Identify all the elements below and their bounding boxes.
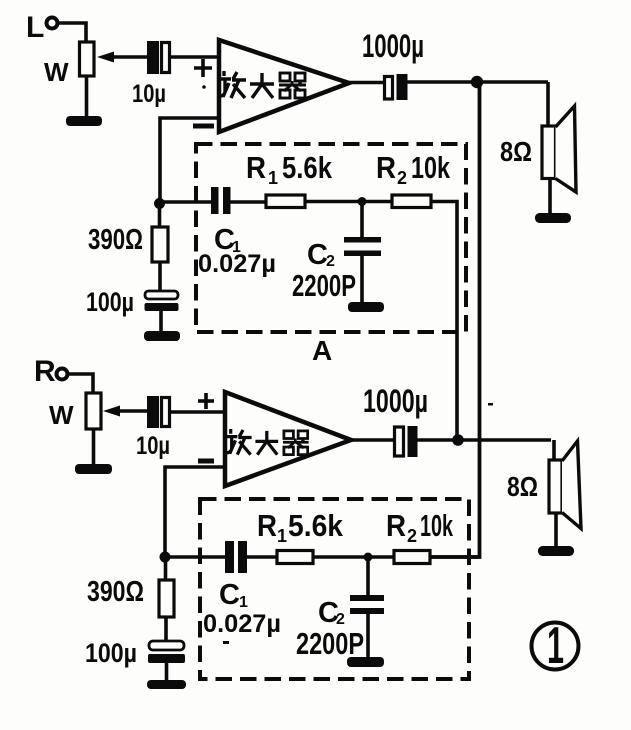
figure number 1 in circle xyxy=(532,617,579,675)
op-amp U1 amplifier triangle (left channel) xyxy=(219,40,349,132)
capacitor C2 left channel xyxy=(344,237,381,243)
node R1 R2 C2 junction right channel xyxy=(364,553,373,562)
wire down to speaker LS1 xyxy=(546,82,550,127)
wire C1 to R1 right xyxy=(245,555,278,559)
wire C2 to ground right xyxy=(366,613,370,658)
node L input terminal xyxy=(26,11,58,44)
resistor R2 right channel xyxy=(394,551,430,564)
svg-text:100µ: 100µ xyxy=(86,287,134,317)
svg-text:W: W xyxy=(49,400,74,430)
wire R2 to lower output node (cross feedback) xyxy=(431,202,457,441)
value label C1 right xyxy=(219,579,248,611)
svg-text:C: C xyxy=(219,579,240,611)
wire 1000u to speaker right channel xyxy=(417,438,551,442)
svg-text:2: 2 xyxy=(397,168,407,188)
potentiometer W (left channel) xyxy=(44,42,148,87)
svg-text:10µ: 10µ xyxy=(136,432,170,460)
node feedback junction left channel xyxy=(154,198,165,209)
wire 10u cap to amplifier + input xyxy=(171,55,219,59)
ground below speaker LS2 xyxy=(538,546,574,556)
noise speck xyxy=(223,641,229,644)
noise speck xyxy=(488,403,493,406)
capacitor 10u right channel xyxy=(136,396,170,460)
wire R terminal to potentiometer top xyxy=(68,374,93,393)
wire speaker LS2 to ground xyxy=(554,513,558,547)
wire node to capacitor C2 right xyxy=(366,557,370,597)
capacitor 1000u left channel xyxy=(362,28,424,100)
ground below speaker LS1 xyxy=(535,213,571,223)
value label fang-da-qi U1 xyxy=(218,71,306,98)
wire 390 ohm to 100u cap xyxy=(158,262,162,292)
speaker LS1 8 ohm xyxy=(542,106,576,192)
op-amp U2 amplifier triangle (right channel) xyxy=(225,392,351,486)
svg-text:W: W xyxy=(44,57,69,87)
capacitor 100u left channel xyxy=(145,291,179,311)
svg-text:1: 1 xyxy=(547,617,564,675)
node output junction left channel xyxy=(471,76,483,88)
pin + of op-amp U2 xyxy=(198,393,214,409)
capacitor C1 right channel xyxy=(225,541,234,573)
svg-text:1: 1 xyxy=(239,594,248,611)
dashed feedback network box right channel xyxy=(200,499,469,679)
svg-text:0.027µ: 0.027µ xyxy=(203,610,281,638)
wire node to capacitor C2 xyxy=(360,202,364,238)
value label C2 right xyxy=(318,597,345,629)
wire potentiometer bottom to ground right channel xyxy=(92,429,96,465)
svg-text:8Ω: 8Ω xyxy=(500,136,532,167)
svg-text:1000µ: 1000µ xyxy=(363,383,428,419)
wire feedback node to 390 ohm right xyxy=(164,557,168,581)
svg-text:5.6k: 5.6k xyxy=(282,150,333,185)
svg-text:R: R xyxy=(246,150,266,185)
wire feedback node to C1 right xyxy=(165,555,226,559)
svg-text:0.027µ: 0.027µ xyxy=(198,250,276,278)
wire feedback node to 390 ohm resistor xyxy=(158,204,162,228)
wire 390 ohm to 100u right xyxy=(164,617,168,642)
wire op-amp U2 inverting input to feedback node right xyxy=(165,467,225,553)
wire down to speaker LS2 xyxy=(552,440,556,461)
resistor 390 ohm right channel xyxy=(159,580,174,617)
wire 10u cap to amplifier + input right xyxy=(171,410,225,414)
capacitor C1 left channel xyxy=(211,187,219,214)
svg-text:8Ω: 8Ω xyxy=(507,471,538,502)
wire R1 to R2 right through node xyxy=(313,555,395,559)
ground below C2 right channel xyxy=(347,657,384,667)
svg-text:2200P: 2200P xyxy=(296,626,364,661)
ground below 100u right channel xyxy=(147,680,186,689)
value label R1 5.6k right xyxy=(257,508,344,546)
wire R1 to R2 through node xyxy=(305,200,393,204)
wire L terminal to potentiometer top xyxy=(58,23,86,42)
node feedback junction right channel xyxy=(160,552,171,563)
svg-text:2200P: 2200P xyxy=(292,268,356,303)
wire speaker LS1 to ground xyxy=(548,178,552,214)
wire potentiometer bottom to ground xyxy=(85,76,89,116)
wire op-amp U2 output to 1000u right xyxy=(351,438,395,442)
value label C2 left xyxy=(307,239,335,271)
resistor R2 left channel xyxy=(392,195,431,208)
svg-text:R: R xyxy=(34,355,56,388)
svg-text:R: R xyxy=(376,150,396,185)
svg-text:10k: 10k xyxy=(420,508,453,543)
svg-text:1: 1 xyxy=(277,526,287,546)
value label R2 10k left xyxy=(376,150,451,188)
dashed feedback network box A xyxy=(196,144,466,332)
svg-text:A: A xyxy=(312,335,332,366)
svg-text:L: L xyxy=(26,11,44,44)
wire op-amp U1 inverting input to feedback node xyxy=(160,118,219,200)
capacitor C2 right channel xyxy=(350,595,384,601)
value label C1 left xyxy=(214,224,241,256)
resistor 390 ohm left channel xyxy=(152,227,168,262)
capacitor 10u left channel xyxy=(132,41,170,108)
wire op-amp U1 output to 1000u xyxy=(349,81,385,85)
svg-text:C: C xyxy=(307,239,328,271)
node output junction right channel xyxy=(452,434,464,446)
noise speck xyxy=(202,85,206,89)
svg-text:10µ: 10µ xyxy=(132,80,166,108)
wire 100u to ground right xyxy=(165,663,169,681)
svg-text:2: 2 xyxy=(407,526,417,546)
value label fang-da-qi U2 xyxy=(225,429,309,455)
node R1 R2 C2 junction left channel xyxy=(358,197,367,206)
speaker LS2 8 ohm xyxy=(549,441,581,529)
ground below potentiometer W right xyxy=(75,464,112,474)
value label R1 5.6k left xyxy=(246,150,333,188)
svg-text:R: R xyxy=(386,508,406,543)
pin + of op-amp U1 xyxy=(194,59,212,77)
wire R2 right end (to cross feedback riser) xyxy=(430,555,480,559)
capacitor 1000u right channel xyxy=(363,383,428,457)
value label R2 10k right xyxy=(386,508,453,546)
svg-text:10k: 10k xyxy=(411,150,451,185)
wire 1000u to speaker left channel xyxy=(407,80,548,84)
resistor R1 left channel xyxy=(266,195,305,208)
wire 100u to ground xyxy=(159,311,163,332)
svg-text:1000µ: 1000µ xyxy=(362,28,424,64)
svg-text:390Ω: 390Ω xyxy=(88,224,143,256)
ground below C2 left channel xyxy=(348,302,384,312)
node R input terminal xyxy=(34,355,68,388)
svg-text:5.6k: 5.6k xyxy=(288,508,344,543)
resistor R1 right channel xyxy=(277,551,313,564)
svg-text:R: R xyxy=(257,508,277,543)
svg-text:1: 1 xyxy=(268,168,278,188)
capacitor 100u right channel xyxy=(148,641,185,663)
svg-text:100µ: 100µ xyxy=(85,638,137,668)
wire feedback node to C1 xyxy=(160,200,212,204)
svg-text:390Ω: 390Ω xyxy=(87,576,144,608)
wire C2 to ground xyxy=(360,256,364,303)
potentiometer W (right channel) xyxy=(49,393,148,430)
wire C1 to R1 xyxy=(230,200,267,204)
wire output node down to lower R2 (cross feedback) xyxy=(430,82,480,557)
ground below 100u left channel xyxy=(144,331,180,341)
pin - of op-amp U2 xyxy=(198,459,214,464)
pin - of op-amp U1 xyxy=(193,124,214,129)
ground below potentiometer W left xyxy=(66,116,102,126)
